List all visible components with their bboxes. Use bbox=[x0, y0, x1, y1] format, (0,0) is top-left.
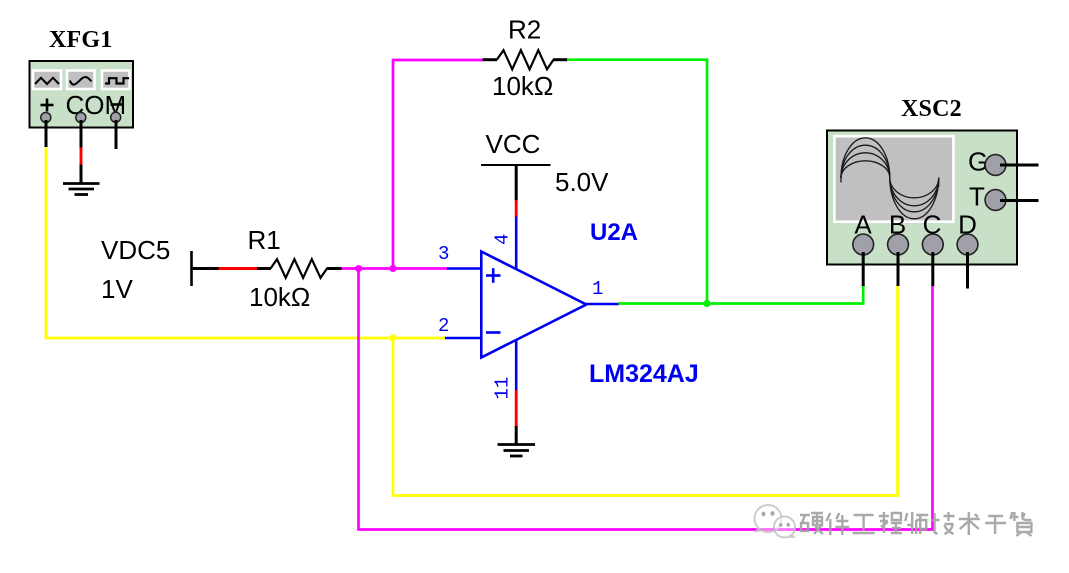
wire VDC5 to R1 black segment bbox=[192, 267, 220, 270]
wire XSC2 C black segment bbox=[931, 252, 934, 286]
wire XSC2 T stub bbox=[1000, 199, 1039, 202]
XSC2 T terminal pin bbox=[985, 190, 1006, 211]
junction node green at output bbox=[703, 300, 710, 307]
VCC power bar bbox=[481, 164, 551, 166]
XFG1 terminal pins bbox=[41, 112, 121, 122]
wire magenta: node up to R2 left bbox=[393, 60, 483, 269]
XFG1 sine-wave button icon bbox=[70, 77, 92, 85]
pin 11 wire black segment bbox=[515, 426, 518, 444]
source VDC5 terminal bar bbox=[190, 251, 193, 286]
junction node on pin3 net at x=393 bbox=[389, 265, 396, 272]
pin 11 wire red segment bbox=[515, 390, 518, 427]
pin 4 wire red segment bbox=[515, 200, 518, 217]
svg-text:5.0V: 5.0V bbox=[555, 167, 609, 197]
svg-text:R2: R2 bbox=[508, 15, 541, 45]
pin lead 2 (inverting input) bbox=[445, 337, 482, 340]
resistor R1 bbox=[271, 259, 328, 278]
XFG1 plus terminal label bbox=[41, 99, 54, 112]
wire R1 left lead bbox=[257, 267, 271, 270]
XSC2 A-D terminal pins bbox=[853, 234, 978, 255]
XSC2 G terminal pin bbox=[985, 155, 1006, 176]
wire magenta feedback: node down, across bottom, up to XSC2 C bbox=[359, 269, 933, 530]
wire XSC2 A black segment bbox=[862, 252, 865, 286]
wire magenta: R1 to op-amp pin 3 bbox=[342, 267, 448, 270]
resistor R2 bbox=[483, 50, 568, 69]
wire XSC2 D stub bbox=[966, 252, 969, 289]
wire XFG1 COM to ground black segment bbox=[80, 165, 83, 184]
svg-text:11: 11 bbox=[492, 377, 514, 400]
wire green: op-amp output across to XSC2 A bbox=[618, 285, 863, 304]
wire XFG1 COM black segment bbox=[80, 120, 83, 149]
svg-text:T: T bbox=[969, 182, 985, 212]
ground symbol under XFG1 bbox=[63, 184, 100, 195]
ground symbol under op-amp bbox=[498, 445, 536, 457]
XFG1 minus terminal label bbox=[111, 103, 124, 106]
wire green: R2 right down to output node bbox=[567, 60, 707, 304]
watermark logo chat bubbles bbox=[754, 505, 796, 538]
svg-text:XSC2: XSC2 bbox=[901, 96, 962, 122]
XFG1 triangle-wave button icon bbox=[35, 78, 59, 84]
svg-text:10kΩ: 10kΩ bbox=[249, 282, 310, 312]
wire VDC5 to R1 red segment bbox=[219, 267, 258, 270]
svg-text:R1: R1 bbox=[248, 225, 281, 255]
wire R1 right lead bbox=[327, 267, 343, 270]
wire yellow net: XFG1 + down and across to op-amp pin 2 bbox=[46, 148, 445, 339]
svg-text:1: 1 bbox=[592, 278, 603, 300]
svg-text:XFG1: XFG1 bbox=[49, 27, 112, 53]
pin lead 1 (output) bbox=[585, 303, 619, 306]
junction node on pin3 net at x=358 bbox=[355, 265, 362, 272]
op-amp + input marker bbox=[486, 268, 501, 283]
svg-text:10kΩ: 10kΩ bbox=[492, 71, 553, 101]
XFG1 square-wave button icon bbox=[105, 78, 129, 83]
svg-text:VCC: VCC bbox=[486, 129, 541, 159]
op-amp U2A triangle bbox=[481, 252, 586, 358]
svg-text:1V: 1V bbox=[101, 274, 133, 304]
wire XFG1 COM red segment bbox=[80, 148, 83, 166]
svg-text:VDC5: VDC5 bbox=[101, 235, 170, 265]
svg-text:4: 4 bbox=[492, 234, 514, 245]
wire XFG1 + terminal black stub bbox=[45, 120, 48, 147]
wire XSC2 B black segment bbox=[897, 252, 900, 286]
wire XFG1 - terminal stub bbox=[115, 120, 118, 149]
instrument XSC2 oscilloscope body bbox=[827, 131, 1017, 265]
pin 4 lead blue bbox=[515, 217, 518, 271]
XSC2 screen waveform traces bbox=[841, 138, 939, 219]
svg-text:3: 3 bbox=[438, 243, 449, 265]
wire XSC2 G stub bbox=[1000, 164, 1039, 167]
junction node yellow at pin2 net bbox=[389, 334, 396, 341]
svg-text:LM324AJ: LM324AJ bbox=[589, 360, 699, 388]
wire yellow: node down, across, up to XSC2 B bbox=[393, 285, 898, 496]
svg-text:2: 2 bbox=[438, 315, 449, 337]
instrument XFG1 function generator body bbox=[30, 61, 134, 128]
pin 11 lead blue bbox=[515, 339, 518, 391]
pin lead 3 (non-inverting input) bbox=[447, 267, 482, 270]
op-amp - input marker bbox=[486, 331, 501, 334]
svg-text:U2A: U2A bbox=[590, 219, 638, 246]
pin 4 wire black segment bbox=[515, 165, 518, 201]
watermark text strokes bbox=[800, 512, 1031, 536]
